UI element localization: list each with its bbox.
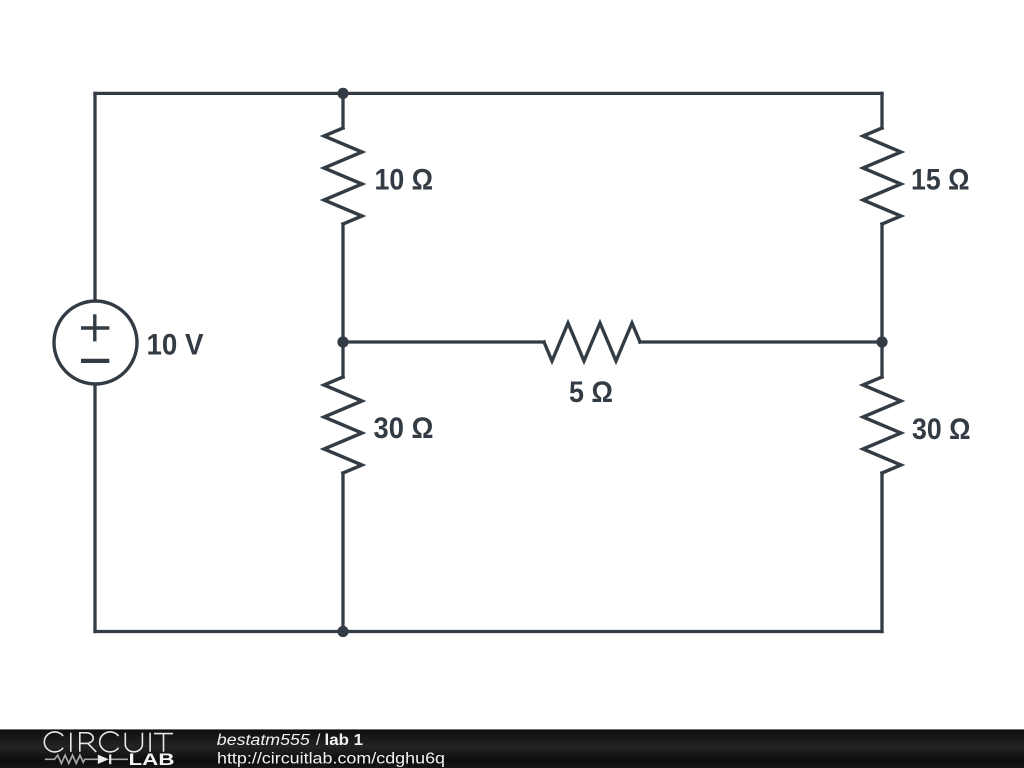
wire top rail (95, 92, 882, 95)
logo diode triangle (98, 755, 109, 764)
logo letter C1 (44, 732, 63, 752)
logo diode cathode bar (109, 754, 111, 764)
svg-text:10 V: 10 V (147, 329, 204, 362)
logo letter I2 (149, 733, 151, 752)
wire right branch top stub (880, 93, 883, 128)
logo letter R (80, 733, 96, 752)
node A top junction dot (337, 88, 348, 99)
node C middle-right junction dot (876, 336, 887, 347)
logo letter T (154, 734, 173, 752)
svg-text:30 Ω: 30 Ω (374, 412, 434, 445)
wire left rail upper (93, 93, 96, 301)
logo wire with resistor and diode (45, 755, 128, 763)
svg-text:lab 1: lab 1 (325, 732, 364, 749)
voltage source minus sign (81, 359, 109, 363)
resistor R1 10ohm zigzag (324, 128, 362, 224)
svg-text:LAB: LAB (129, 751, 175, 768)
wire middle branch top stub (341, 93, 344, 128)
node D bottom junction dot (337, 626, 348, 637)
svg-text:/: / (316, 732, 321, 749)
resistor R4 30ohm right zigzag (863, 377, 901, 473)
svg-text:5 Ω: 5 Ω (569, 376, 613, 409)
resistor R5 5ohm horizontal zigzag (544, 323, 640, 361)
wire right branch between R2 and node C (880, 224, 883, 342)
voltage source V1 circle (54, 301, 137, 384)
svg-text:http://circuitlab.com/cdghu6q: http://circuitlab.com/cdghu6q (217, 751, 445, 768)
svg-text:15 Ω: 15 Ω (911, 164, 970, 197)
node B middle-left junction dot (337, 336, 348, 347)
logo CIRCUIT letters (44, 732, 173, 752)
wire middle branch below R3 (341, 473, 344, 632)
wire left rail lower (93, 385, 96, 632)
logo letter C2 (100, 732, 119, 752)
svg-text:30 Ω: 30 Ω (912, 413, 971, 446)
resistor R3 30ohm left zigzag (324, 377, 362, 473)
voltage source plus sign (81, 314, 109, 341)
resistor R2 15ohm zigzag (863, 128, 901, 224)
wire right branch between node C and R4 (880, 342, 883, 377)
logo letter I1 (70, 733, 72, 752)
wire right branch below R4 (880, 473, 883, 632)
svg-text:10 Ω: 10 Ω (375, 164, 434, 197)
svg-text:bestatm555: bestatm555 (217, 732, 310, 749)
wire middle branch between node B and R3 (341, 342, 344, 377)
wire middle horizontal right of R5 (640, 340, 882, 343)
logo letter U (125, 733, 142, 752)
wire middle branch between R1 and node B (341, 224, 344, 342)
wire bottom rail (95, 630, 882, 633)
wire middle horizontal left of R5 (343, 340, 544, 343)
